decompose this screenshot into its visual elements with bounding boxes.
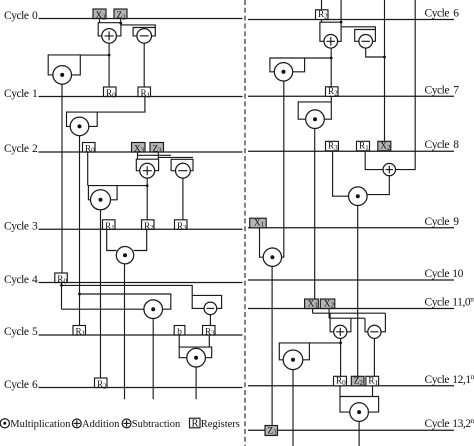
input X2 (cycle 11) xyxy=(320,298,335,309)
wire from top into R2 cycle6 xyxy=(321,0,323,10)
cycle 5 line (left) xyxy=(39,334,243,336)
wire M4 output below cycle6 xyxy=(152,319,154,400)
wire bus row1 to S4 xyxy=(62,285,193,295)
wire bus row4 to M4 left input xyxy=(62,308,144,310)
wire R3 cycle8 output to M8 left xyxy=(333,151,349,196)
wire R2 output to A6 bracket xyxy=(321,20,323,23)
bracket of subtractor S0 xyxy=(133,28,155,36)
register R2 (cycle 7) xyxy=(326,86,339,97)
svg-text:Cycle: Cycle xyxy=(4,143,29,155)
wire A0 output to R0 cycle1 xyxy=(108,43,110,87)
wire R1 cycle8 output to A8 left xyxy=(365,151,383,170)
register R1 (cycle 8) xyxy=(357,141,370,152)
cycle 3 line (left) xyxy=(39,228,243,230)
svg-text:2: 2 xyxy=(32,143,38,155)
subtractor S2 xyxy=(176,163,191,178)
wire X2 rail to S11 left xyxy=(329,317,365,319)
wire M11 output to bottom edge xyxy=(292,370,294,446)
wire X1 cycle11 down xyxy=(312,309,314,314)
wire M2 bracket feed from A2 output xyxy=(117,185,147,187)
legend multiplication symbol xyxy=(0,419,9,428)
svg-text:Cycle: Cycle xyxy=(425,84,450,96)
wire R3 cycle5 output to M5 bracket xyxy=(208,335,210,347)
register R0 (cycle 12) xyxy=(334,376,347,387)
adder A6 xyxy=(324,35,338,49)
input Z2 (cycle 12) xyxy=(351,376,364,387)
legend addition symbol xyxy=(72,419,81,428)
svg-text:Cycle: Cycle xyxy=(4,221,29,233)
register R1 (cycle 5) xyxy=(73,326,86,338)
cycle 12 line (right) xyxy=(248,385,454,387)
wire X3 branch to S2 bracket xyxy=(138,154,172,156)
multiplier M12 xyxy=(350,403,369,422)
adder A11 xyxy=(334,325,347,338)
bracket of adder A0 xyxy=(98,23,121,36)
adder A2 xyxy=(140,163,155,178)
register R0 (cycle 1) xyxy=(104,87,117,99)
junction A0 out / M0 feed xyxy=(108,54,111,57)
input Z3 (cycle 13) xyxy=(265,425,278,436)
wire A8 output to M8 right xyxy=(367,176,389,195)
wire R0 cycle12 output to M12 bracket xyxy=(339,386,341,397)
wire X2 to adder bracket xyxy=(99,19,101,23)
cycle 1 line (left) xyxy=(39,96,243,98)
wire A2 output to R2 cycle3 xyxy=(146,178,148,220)
wire M9 output long vertical to Z3 cycle13 xyxy=(271,266,273,425)
cycle 10 line (right) xyxy=(248,279,454,281)
cycle 13 line (right) xyxy=(248,429,454,431)
cycle 2 line (left) xyxy=(39,151,243,153)
wire S0 output to R1 cycle1 xyxy=(143,43,145,87)
wire R1 output to M1 bracket xyxy=(97,97,145,113)
wire S4 output to R3 cycle5 xyxy=(209,315,211,326)
register R1 (cycle 1) xyxy=(138,87,151,99)
wire branch to S6 bracket xyxy=(341,27,375,30)
junction A6 bracket xyxy=(340,21,343,24)
wire from top to A6 bracket right xyxy=(340,0,342,22)
junction M1 out row2 xyxy=(78,293,81,296)
svg-text:Addition: Addition xyxy=(82,419,120,430)
cycle 6 line (left) xyxy=(39,387,243,389)
wire R2 cycle7 output to M7 bracket xyxy=(330,96,332,102)
wire R0 cycle2 output to M2 bracket xyxy=(87,152,89,186)
wire A11 right input xyxy=(347,318,351,332)
wire Z3 down xyxy=(157,152,159,159)
register R2 (cycle 3) xyxy=(142,220,155,232)
wire bus row2 to M4 right input xyxy=(80,294,171,309)
constant b (cycle 5) xyxy=(174,326,185,337)
svg-text:Cycle: Cycle xyxy=(4,379,29,391)
multiplier M0 xyxy=(53,66,72,85)
input X2 (cycle 0) xyxy=(93,9,106,21)
wire R1 cycle3 output to M3 xyxy=(107,229,117,250)
wire M12 output to bottom edge xyxy=(358,421,360,446)
cycle 11 line (right) xyxy=(248,308,454,310)
svg-text:Cycle: Cycle xyxy=(4,326,29,338)
subtractor S6 xyxy=(359,35,373,49)
wire from top to X2 cycle8 xyxy=(384,0,386,141)
wire R2 cycle3 output to M3 xyxy=(134,229,147,250)
junction R0 out row1 xyxy=(60,284,63,287)
multiplier M7 xyxy=(306,110,325,129)
cycle 4 line (left) xyxy=(39,282,243,284)
wire M8 output long vertical to Z2 cycle12 xyxy=(357,206,359,377)
svg-text:0: 0 xyxy=(32,10,38,22)
svg-text:4: 4 xyxy=(32,274,38,286)
wire Z2 down to bracket xyxy=(120,19,122,23)
svg-text:Registers: Registers xyxy=(201,419,240,430)
svg-text:6: 6 xyxy=(32,379,38,391)
input Z2 (cycle 0) xyxy=(114,9,127,21)
svg-text:Cycle: Cycle xyxy=(425,297,450,309)
svg-text:3: 3 xyxy=(32,221,38,233)
adder A0 xyxy=(102,29,117,44)
input X1 (cycle 11) xyxy=(305,298,319,309)
wire M5 output below cycle6 xyxy=(195,367,197,399)
svg-text:Multiplication: Multiplication xyxy=(10,419,71,430)
subtractor S11 xyxy=(368,325,381,338)
multiplier M6 xyxy=(274,63,292,81)
bracket of subtractor S2 xyxy=(171,159,193,170)
junction S6 out xyxy=(383,56,386,59)
subtractor S0 xyxy=(137,29,152,44)
wire b output to M5 bracket xyxy=(178,335,180,347)
bracket of multiplier M12 xyxy=(340,397,379,413)
svg-text:Cycle: Cycle xyxy=(425,139,450,151)
bracket of multiplier M6 xyxy=(270,58,305,72)
legend subtraction symbol xyxy=(122,419,131,428)
register R3 (cycle 3) xyxy=(175,220,188,232)
svg-text:Cycle: Cycle xyxy=(425,374,450,386)
junction Z2 branch xyxy=(119,22,122,25)
svg-text:10: 10 xyxy=(452,268,463,280)
input X3 (cycle 2) xyxy=(132,143,146,155)
junction A11 out / M11 feed xyxy=(339,342,342,345)
bracket of adder A2 xyxy=(136,159,158,171)
register R2 (cycle 6) xyxy=(95,378,108,390)
register R0 (cycle 4) xyxy=(55,273,68,285)
svg-text:Cycle: Cycle xyxy=(425,418,450,430)
input Z3 (cycle 2) xyxy=(150,143,164,155)
register R1 (cycle 3) xyxy=(103,220,116,232)
wire X3 down xyxy=(137,152,139,159)
wire X1 rail to S11 right xyxy=(313,312,386,314)
wire S6 output to X2 line xyxy=(366,48,385,57)
multiplier M3 xyxy=(116,247,133,264)
svg-text:Cycle: Cycle xyxy=(4,274,29,286)
bracket of multiplier M1 xyxy=(67,112,98,126)
wire M11 bracket feed from A11 output xyxy=(309,342,340,344)
legend register symbol xyxy=(190,418,201,429)
wire Z2 branch to subtractor bracket xyxy=(121,25,155,28)
svg-text:Cycle: Cycle xyxy=(425,268,450,280)
multiplier M5 xyxy=(187,348,206,367)
wire R0 cycle4 output down xyxy=(61,283,63,310)
wire M1 output long vertical to R1 cycle5 xyxy=(79,136,81,326)
multiplier M8 xyxy=(349,187,368,206)
svg-text:Cycle: Cycle xyxy=(425,8,450,20)
wire X1 output to M9 left xyxy=(260,228,264,257)
wire R1 cycle12 output to M12 bracket xyxy=(372,386,374,397)
input X2 (cycle 8) xyxy=(378,141,391,152)
bracket of multiplier M5 xyxy=(179,347,212,358)
cycle 7 line (right) xyxy=(248,95,454,97)
bracket of adder A6 xyxy=(320,22,341,41)
svg-text:Cycle: Cycle xyxy=(425,216,450,228)
wire A11 left input xyxy=(330,313,334,332)
wire M0 output long vertical to R0 cycle4 xyxy=(61,84,63,273)
adder A8 xyxy=(383,163,395,175)
wire X2 cycle11 down xyxy=(328,309,330,319)
cycle 9 line (right) xyxy=(248,227,454,229)
bracket of multiplier M0 xyxy=(48,55,80,75)
svg-text:5: 5 xyxy=(32,326,38,338)
junction A2 out / M2 feed xyxy=(146,184,149,187)
register R3 (cycle 8) xyxy=(326,141,339,152)
cycle 6 line (right) xyxy=(248,19,454,21)
wire A6 output to R2 cycle7 xyxy=(330,48,332,87)
svg-text:9: 9 xyxy=(453,216,459,228)
svg-text:Cycle: Cycle xyxy=(4,88,29,100)
register R1 (cycle 12) xyxy=(366,376,379,387)
wire S11 left input xyxy=(365,318,368,332)
wire M7 output long vertical to X1 cycle11 xyxy=(314,129,316,300)
register R3 (cycle 5) xyxy=(203,326,216,338)
subtractor S4 xyxy=(204,302,217,315)
register R0 (cycle 2) xyxy=(83,143,96,155)
wire M6 output long vertical to M9 right input xyxy=(282,81,284,257)
wire M3 output long vertical below cycle6 xyxy=(124,264,126,399)
multiplier M9 xyxy=(263,248,281,266)
svg-text:8: 8 xyxy=(453,139,459,151)
multiplier M4 xyxy=(144,300,163,319)
input X1 (cycle 9) xyxy=(250,218,267,229)
wire M0 bracket feed from A0 output xyxy=(80,54,109,56)
bracket of multiplier M2 xyxy=(88,186,117,200)
bracket of subtractor S4 xyxy=(192,295,221,308)
multiplier M11 xyxy=(283,350,303,370)
wire Z3 branch to S2 bracket right xyxy=(158,156,193,158)
cycle 0 line (left) xyxy=(39,18,243,20)
svg-text:6: 6 xyxy=(453,8,459,20)
wire M6 bracket feed from A6 output xyxy=(305,57,332,59)
wire M2 output long vertical to R2 cycle6 xyxy=(100,210,102,378)
svg-text:Cycle: Cycle xyxy=(4,10,29,22)
multiplier M2 xyxy=(91,190,111,210)
svg-text:Subtraction: Subtraction xyxy=(132,419,181,430)
bracket of subtractor S6 xyxy=(355,30,376,42)
wire S11 output to R1 cycle12 xyxy=(373,338,375,376)
svg-text:7: 7 xyxy=(453,84,459,96)
wire S11 right input xyxy=(381,313,385,332)
wire from top to A8 right input xyxy=(396,0,416,170)
wire S2 output to R3 cycle3 xyxy=(182,178,184,220)
bracket of multiplier M11 xyxy=(279,343,309,360)
wire A11 output to R0 cycle12 xyxy=(340,338,342,376)
multiplier M1 xyxy=(70,117,89,136)
bracket of multiplier M7 xyxy=(298,102,331,119)
svg-text:1: 1 xyxy=(32,88,38,100)
svg-text:R: R xyxy=(192,419,199,430)
register R2 (cycle 6 right) xyxy=(316,9,329,20)
cycle 8 line (right) xyxy=(248,150,454,152)
junction A6 out / M6 feed xyxy=(330,57,333,60)
dashed divider xyxy=(244,0,246,446)
